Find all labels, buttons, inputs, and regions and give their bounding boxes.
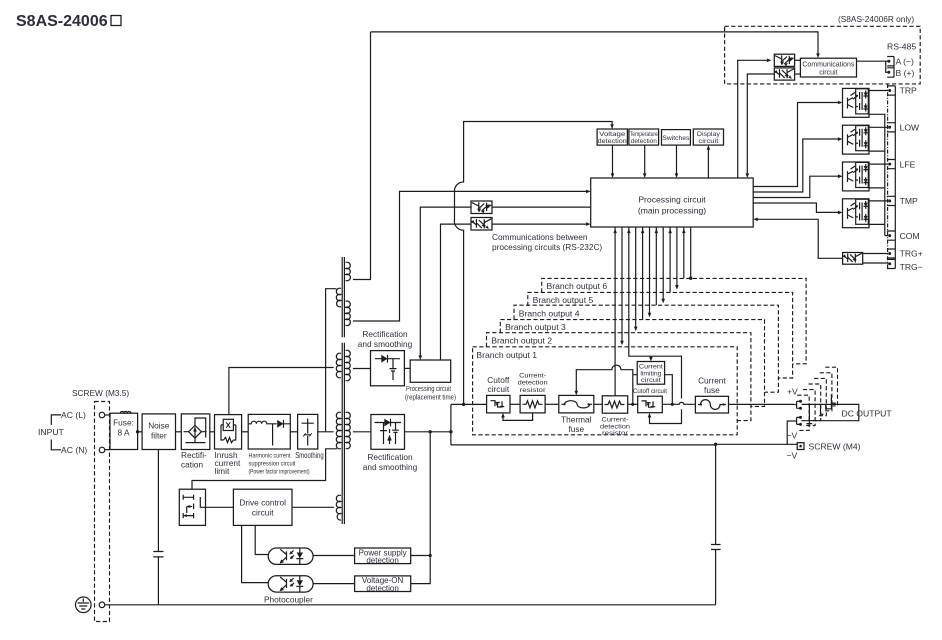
branch output 1 dashed box — [473, 347, 738, 435]
wire cutoff1 to CDR1 — [510, 403, 520, 405]
svg-text:Branch output 1: Branch output 1 — [476, 350, 537, 360]
CDR2 resistor glyph — [605, 401, 625, 408]
svg-text:Thermal: Thermal — [561, 415, 592, 425]
control line 11 — [683, 228, 685, 279]
svg-text:Rectifi-: Rectifi- — [181, 450, 207, 460]
processing circuit (replacement time) box — [410, 360, 451, 382]
second output connector — [795, 417, 800, 424]
svg-text:limit: limit — [215, 466, 230, 476]
wire TRP coupler to common rail — [868, 114, 885, 235]
+V rail wire to cutoff1 — [451, 403, 487, 405]
terminal B(+) — [887, 68, 894, 77]
svg-text:Communications: Communications — [802, 62, 854, 69]
switch transistor glyphs — [183, 495, 205, 518]
voltage sense wire with hop (from +V rail up to voltage detection) — [454, 122, 612, 405]
photocoupler RS232C 2 — [471, 218, 492, 231]
thermal fuse sense wire — [576, 365, 637, 404]
control line 1 (sense to CDR2) — [614, 228, 616, 396]
rect2 capacitors and diode up — [380, 423, 399, 445]
branch output 6 dashed box — [542, 278, 806, 363]
terminal A(-) — [887, 57, 894, 78]
rectification and smoothing box 1 — [371, 351, 405, 386]
photocoupler RS485 1 — [774, 54, 794, 66]
capacitor -V to ground — [711, 545, 721, 550]
svg-text:circuit: circuit — [487, 384, 509, 394]
current-detection resistor 2 box — [602, 396, 627, 413]
wire comm box to pc2 — [795, 73, 801, 75]
current limiting circuit right leg — [665, 375, 673, 405]
svg-text:Branch output 5: Branch output 5 — [533, 295, 594, 305]
wire thermal fuse to CDR2 — [594, 403, 603, 405]
svg-text:detection: detection — [518, 380, 549, 387]
wire drive to photocoupler 2 — [242, 525, 269, 582]
terminal LOW — [887, 123, 895, 132]
junction rect2 output — [429, 430, 432, 433]
svg-text:(replacement time): (replacement time) — [405, 395, 456, 402]
photocoupler relay LFE — [843, 162, 870, 191]
T2 drive winding C left — [336, 495, 341, 520]
terminal TRP — [887, 86, 895, 95]
svg-text:SCREW (M3.5): SCREW (M3.5) — [72, 388, 129, 398]
wire drive to photocoupler 1 — [255, 525, 268, 554]
control line 8 (BO5 arrow) — [662, 228, 664, 301]
smoothing box — [298, 414, 318, 449]
wire pc2 to processing (arrow) — [492, 223, 589, 225]
wire processing to TRP coupler — [753, 103, 840, 187]
cutoff2 SCR glyph — [642, 401, 656, 407]
current-detection resistor 1 box — [520, 395, 545, 413]
wire TRG coupler to TRG+ — [863, 253, 888, 255]
svg-text:processing circuits (RS-232C): processing circuits (RS-232C) — [492, 242, 602, 252]
capacitor on noise filter ground line — [153, 552, 163, 557]
voltage-ON detection box — [355, 576, 411, 592]
wire T2 winding A to rectifier1 — [353, 368, 371, 370]
wire LOW coupler to LOW terminal — [868, 126, 888, 128]
harmonic diode — [277, 420, 283, 428]
rectification U1 box — [181, 414, 210, 450]
wire pc1 to power supply detection — [313, 555, 355, 557]
svg-text:TRG−: TRG− — [900, 262, 923, 272]
control line 3 (cutoff2 route) — [629, 228, 682, 424]
wire T1 coil B to processing feed — [353, 191, 589, 321]
svg-text:circuit: circuit — [641, 377, 661, 384]
fuse symbol — [120, 411, 131, 413]
wire rect1 to replacement box — [404, 367, 410, 369]
rectification and smoothing box 2 — [371, 415, 405, 450]
T1 secondary coil B (right) — [346, 301, 351, 326]
transformer T2 core (bottom) — [342, 343, 344, 524]
wire comm box to A terminal — [857, 60, 889, 62]
svg-text:Current: Current — [698, 376, 726, 386]
wire TMP coupler to common rail — [868, 223, 885, 225]
svg-text:Smoothing: Smoothing — [295, 450, 324, 460]
svg-text:circuit: circuit — [698, 138, 718, 145]
svg-text:Drive control: Drive control — [239, 498, 286, 508]
temperature detection box — [629, 129, 659, 145]
cutoff circuit 2 box — [638, 396, 663, 413]
svg-text:TMP: TMP — [900, 196, 918, 206]
junction CLC legs — [631, 403, 634, 406]
-V to chassis capacitor drop — [715, 444, 717, 605]
junction at branch bus — [449, 430, 452, 433]
rectifier arrow — [193, 427, 197, 432]
svg-text:Current-: Current- — [519, 373, 546, 380]
svg-text:TRP: TRP — [900, 86, 917, 96]
svg-text:Fuse:: Fuse: — [113, 418, 134, 428]
T1 primary coil (left) — [336, 288, 341, 307]
rect2 diode — [375, 419, 402, 427]
T2 secondary B right — [346, 412, 351, 449]
transformer T1 core (top) — [342, 257, 344, 337]
wire pc1 to processing — [492, 206, 591, 208]
arrow into current limiting circuit — [650, 356, 652, 359]
wire T2 winding B to rectifier2 — [353, 431, 371, 433]
+V terminal connector — [795, 401, 800, 408]
terminal rail dash-dot — [887, 84, 889, 270]
photocoupler RS485 2 — [774, 68, 794, 80]
wire LOW coupler to common rail — [868, 150, 885, 152]
svg-text:cation: cation — [181, 460, 204, 470]
wire TRG coupler to TRG- — [863, 262, 888, 265]
harmonic inductor and diode symbol — [248, 420, 290, 446]
svg-text:Noise: Noise — [148, 421, 170, 431]
noise filter box — [142, 414, 175, 450]
svg-text:Harmonic current: Harmonic current — [249, 453, 291, 460]
wire processing to LOW coupler — [753, 139, 840, 192]
control line 9 — [669, 228, 671, 293]
svg-text:Switches: Switches — [662, 135, 689, 142]
wire LFE coupler to LFE terminal — [868, 163, 888, 165]
control line 12 with junction dot — [690, 228, 692, 279]
svg-text:SCREW (M4): SCREW (M4) — [809, 442, 861, 452]
photocoupler ellipse 2 — [268, 576, 313, 592]
photocoupler relay TMP — [843, 199, 870, 228]
thermal fuse box — [559, 395, 594, 413]
photocoupler relay LOW — [843, 125, 870, 154]
CDR1 resistor glyph — [523, 401, 543, 408]
svg-text:suppression circuit: suppression circuit — [249, 461, 296, 468]
svg-text:B (+): B (+) — [896, 68, 915, 78]
svg-text:Branch output 3: Branch output 3 — [505, 322, 566, 332]
svg-text:AC (L): AC (L) — [61, 410, 86, 420]
svg-text:AC (N): AC (N) — [61, 445, 87, 455]
terminal TMP — [887, 196, 895, 205]
svg-text:TRG+: TRG+ — [900, 249, 923, 259]
branch bus vertical — [450, 404, 452, 445]
svg-text:(main processing): (main processing) — [638, 206, 706, 216]
svg-text:Rectification: Rectification — [367, 452, 413, 462]
branch output 2 dashed box — [487, 333, 751, 421]
T1 secondary coil A (right) — [346, 262, 351, 281]
wire AC L to fuse — [105, 414, 110, 416]
wire inrush top to transformer primary — [229, 368, 334, 415]
svg-text:detection: detection — [598, 138, 627, 145]
wire current fuse to +V terminal — [729, 403, 795, 405]
wire processing to LFE coupler — [753, 176, 840, 197]
cutoff1 SCR glyph — [491, 401, 505, 407]
T2 winding A right — [346, 350, 351, 381]
comm vertical A (processing to RS485 pc1) — [738, 60, 769, 178]
wire smoothing to transformer primary (main DC bus) — [318, 431, 334, 433]
display circuit box — [693, 129, 723, 145]
svg-text:circuit: circuit — [819, 70, 837, 77]
wire cutoff2 to current fuse with hop — [662, 402, 695, 404]
control line 5 — [642, 228, 644, 320]
svg-text:circuit: circuit — [252, 508, 274, 518]
svg-text:and smoothing: and smoothing — [363, 462, 418, 472]
ground rail wire — [105, 604, 716, 606]
photocoupler RS232C 1 — [471, 201, 492, 214]
svg-text:Processing circuit: Processing circuit — [638, 195, 706, 205]
svg-text:Branch output 6: Branch output 6 — [547, 281, 608, 291]
terminal COM — [887, 231, 895, 240]
screw terminal M4 — [797, 443, 804, 450]
switching transistor box — [179, 489, 205, 525]
svg-text:A (−): A (−) — [896, 57, 915, 67]
rect1 diode — [375, 355, 400, 363]
voltage detection box — [597, 129, 627, 145]
terminal LFE — [887, 160, 895, 169]
switches box — [662, 130, 691, 146]
current limiting circuit box — [637, 362, 664, 385]
terminal TRG- — [887, 259, 895, 268]
wire RS232C line A (to replacement box, arrow) — [420, 207, 471, 357]
arrow into processing (power line) — [586, 190, 591, 194]
svg-text:filter: filter — [151, 431, 167, 441]
wire LFE coupler to common rail — [868, 187, 885, 189]
wire fuse to noise filter — [138, 431, 143, 433]
control line 7 — [655, 228, 657, 306]
terminal AC N — [99, 447, 105, 453]
photocoupler relay TRP — [843, 88, 870, 117]
harmonic current suppression box — [248, 414, 290, 449]
-V rail wire — [451, 443, 797, 446]
svg-text:Current-: Current- — [602, 417, 629, 424]
thermal fuse S-curve — [562, 401, 593, 408]
wire A to B terminal — [886, 61, 888, 72]
wire drive to T2 winding C — [292, 506, 334, 508]
terminal AC L — [99, 412, 105, 418]
control line 10 (BO6 arrow) — [676, 228, 678, 287]
control line 2 (BO2 arrow) — [621, 228, 623, 343]
control line 6 (BO4 arrow) — [649, 228, 651, 315]
smoothing capacitor symbol — [302, 419, 314, 446]
svg-text:Rectification: Rectification — [362, 329, 408, 339]
svg-text:resistor: resistor — [602, 430, 629, 437]
wire rect2 output to bus — [405, 431, 451, 433]
svg-text:(Power factor improvement): (Power factor improvement) — [249, 469, 310, 476]
wire TRG coupler to processing (return) — [755, 219, 842, 258]
svg-text:Branch output 4: Branch output 4 — [519, 308, 580, 318]
arrow into communications circuit — [816, 53, 820, 58]
svg-text:Processing circuit: Processing circuit — [406, 386, 451, 393]
svg-text:+V: +V — [787, 387, 798, 397]
communications circuit box — [800, 58, 856, 77]
svg-text:Photocoupler: Photocoupler — [264, 595, 313, 605]
wire common rail to COM terminal — [885, 235, 888, 237]
wire switch to drive control — [206, 506, 234, 508]
wire harmonic to smoothing — [290, 431, 297, 433]
svg-text:detection: detection — [366, 556, 398, 565]
sense drop to detections — [411, 432, 431, 584]
wire TMP coupler to TMP terminal — [868, 200, 888, 202]
svg-text:fuse: fuse — [568, 424, 584, 434]
CDR1 sense loop to cutoff1 — [503, 413, 533, 421]
svg-text:DC OUTPUT: DC OUTPUT — [842, 409, 893, 419]
wire T1 primary to DC bus — [326, 289, 337, 432]
wire TRP coupler to TRP terminal — [868, 90, 888, 92]
rectifier bridge diamond — [184, 418, 207, 443]
power supply detection box — [355, 548, 411, 564]
svg-text:Cutoff circuit: Cutoff circuit — [633, 388, 667, 395]
solid joins from branch outputs to bus — [807, 395, 836, 424]
svg-text:and smoothing: and smoothing — [358, 339, 413, 349]
cutoff circuit 1 box — [487, 395, 510, 413]
svg-text:Temperature: Temperature — [630, 131, 658, 138]
junction +V rail sense — [462, 403, 465, 406]
ground terminal circle — [99, 602, 105, 608]
svg-text:Communications between: Communications between — [492, 232, 588, 242]
svg-text:Display: Display — [697, 131, 721, 138]
wire rectification to inrush — [210, 431, 215, 433]
svg-text:Branch output 2: Branch output 2 — [491, 336, 552, 346]
terminal TRG+ — [887, 249, 895, 258]
rect1 capacitor — [390, 359, 397, 380]
wire T2 primary bottom to switch — [192, 449, 337, 489]
control line 4 (BO3 arrow) — [635, 228, 637, 329]
terminal strip wall — [894, 86, 896, 269]
wire T1 coil A to top rail — [353, 32, 371, 280]
current fuse box — [695, 396, 728, 413]
noise filter ground drop wire — [157, 450, 159, 605]
wire switches to processing — [676, 145, 678, 175]
input terminal block (dashed) — [95, 402, 110, 622]
svg-text:Voltage: Voltage — [599, 131, 626, 138]
-V feed wire to second connector — [787, 421, 794, 444]
drive control circuit box — [233, 489, 292, 525]
wire inrush to harmonic — [242, 431, 249, 433]
svg-text:8 A: 8 A — [118, 428, 130, 438]
comm vertical B (RS485 pc2 to processing) — [747, 74, 774, 175]
svg-text:RS-485: RS-485 — [887, 42, 916, 52]
top rail wire to communications — [371, 32, 819, 56]
DC output pair loop — [802, 404, 859, 421]
svg-text:fuse: fuse — [704, 385, 720, 395]
svg-text:resistor: resistor — [520, 387, 547, 394]
svg-text:−V: −V — [787, 451, 798, 461]
wire pc2 to voltage-ON detection — [313, 583, 355, 585]
svg-text:detection: detection — [631, 138, 657, 145]
processing circuit (main processing) box — [591, 178, 754, 227]
svg-text:LFE: LFE — [900, 159, 916, 169]
wire CDR1 to thermal fuse — [545, 403, 559, 405]
wire AC N to fuse — [105, 449, 110, 451]
fuse F1 box — [110, 413, 138, 449]
current fuse S-curve — [698, 400, 726, 410]
wire CDR2 to cutoff2 — [628, 403, 638, 405]
branch output terminal hooks (dashed) — [797, 395, 809, 430]
branch output 3 dashed box — [500, 320, 764, 407]
wire noise filter to rectification — [176, 431, 182, 433]
inrush current limit box — [215, 415, 242, 449]
branch output 5 dashed box — [528, 292, 793, 378]
svg-text:(S8AS-24006R only): (S8AS-24006R only) — [838, 14, 914, 24]
junction fuse output — [136, 430, 139, 433]
wire pc1 to comm box — [795, 59, 801, 61]
svg-text:−V: −V — [787, 431, 798, 441]
svg-text:S8AS-24006: S8AS-24006 — [16, 13, 108, 30]
ground symbol — [76, 597, 92, 613]
wire processing to display circuit — [707, 148, 709, 178]
svg-text:LOW: LOW — [900, 123, 920, 133]
inrush thyristor and resistor symbol — [221, 419, 236, 442]
svg-text:detection: detection — [366, 584, 398, 593]
photocoupler ellipse 1 — [268, 548, 313, 564]
photocoupler TRG — [843, 253, 863, 265]
svg-text:INPUT: INPUT — [38, 427, 65, 437]
wire RS232C line B (from replacement box) — [441, 224, 472, 360]
T2 primary coil left — [336, 412, 341, 449]
branch output 4 dashed box — [514, 305, 778, 392]
T2 winding A left — [336, 353, 341, 378]
wire processing to TMP coupler — [753, 203, 840, 212]
junction -V capacitor — [714, 443, 717, 446]
svg-text:COM: COM — [900, 231, 920, 241]
wire voltage detection to processing — [612, 145, 614, 175]
wire temperature detection to processing — [644, 145, 646, 175]
input bracket — [51, 415, 61, 450]
RS-485 dashed enclosure — [725, 26, 921, 84]
